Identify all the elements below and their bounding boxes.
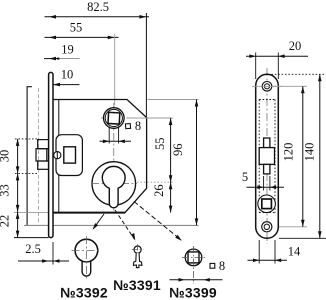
plate centerline (266, 68, 268, 244)
svg-text:19: 19 (61, 43, 74, 57)
dim 14 (248, 240, 302, 264)
square hole (258, 195, 276, 213)
follower square (64, 147, 76, 163)
svg-text:20: 20 (289, 39, 302, 53)
Nº3392 cylinder symbol (72, 236, 102, 279)
svg-text:30: 30 (0, 150, 12, 163)
ext cylinder center dotted (137, 181, 173, 183)
svg-text:14: 14 (288, 245, 301, 259)
square 8 label (210, 259, 225, 273)
dim 120 (272, 86, 307, 227)
svg-text:96: 96 (171, 144, 185, 157)
dim 20 (246, 39, 308, 79)
center dashdot vertical through spindle+cylinder (113, 103, 115, 211)
dim 140 (268, 74, 326, 238)
svg-text:140: 140 (303, 143, 317, 162)
svg-text:55: 55 (153, 138, 167, 151)
lock case body outline (53, 100, 147, 213)
svg-text:26: 26 (152, 184, 166, 197)
cylinder H centerline (91, 183, 137, 185)
plate outline (256, 74, 279, 238)
svg-text:№3392: №3392 (60, 285, 108, 300)
dim 5 (242, 170, 284, 191)
Nº3391 key symbol (132, 244, 144, 268)
svg-text:55: 55 (70, 21, 83, 35)
ext spindle center right grey (127, 117, 174, 119)
ext body top right grey (148, 99, 199, 101)
top screw (262, 82, 272, 92)
leader A to 3392 (93, 214, 105, 230)
svg-text:82.5: 82.5 (87, 0, 109, 14)
follower cross (259, 138, 274, 174)
ext faceplate bottom (14, 237, 49, 239)
dim chain 30/33/22 left (0, 139, 38, 238)
svg-text:10: 10 (61, 68, 74, 82)
cylinder circle (92, 162, 136, 206)
chain dim 55/26 right of body (152, 118, 172, 213)
leader C to 3399 (134, 202, 182, 241)
euro keyhole (102, 166, 125, 207)
dim 55 top (45, 21, 119, 106)
body bottom thick (53, 212, 125, 214)
dim 82.5 top (45, 0, 150, 117)
dim 19 (44, 43, 80, 61)
svg-text:8: 8 (219, 259, 225, 273)
latch case rounded rect (56, 135, 82, 176)
bottom screw (262, 222, 272, 232)
left bar (faceplate front overlap view) (27, 87, 39, 226)
grey ext line y=225.4 (24, 224, 199, 226)
body inner wall (58, 100, 60, 213)
grey ext body bottom left (14, 212, 49, 214)
spindle follower (104, 108, 125, 129)
latch bolt (36, 140, 49, 170)
dim 96 (171, 100, 198, 226)
dotted body behind (259, 100, 275, 213)
svg-text:2.5: 2.5 (25, 242, 41, 256)
svg-text:5: 5 (242, 170, 248, 184)
svg-text:№3391: №3391 (113, 277, 161, 293)
dim square 8 (spindle) (100, 119, 142, 144)
dim 10 (53, 68, 80, 87)
Nº3399 spindle symbol (170, 246, 223, 284)
svg-text:33: 33 (0, 184, 12, 197)
svg-text:№3399: №3399 (169, 285, 217, 300)
leader B to 3391 dashed (115, 210, 135, 241)
svg-text:8: 8 (135, 119, 141, 133)
faceplate edge view (49, 72, 53, 237)
spindle H centerline (101, 117, 127, 119)
svg-text:22: 22 (0, 215, 12, 228)
svg-text:120: 120 (282, 143, 296, 162)
dim 2.5 bottom left (18, 242, 69, 265)
adjust screw (54, 152, 61, 159)
